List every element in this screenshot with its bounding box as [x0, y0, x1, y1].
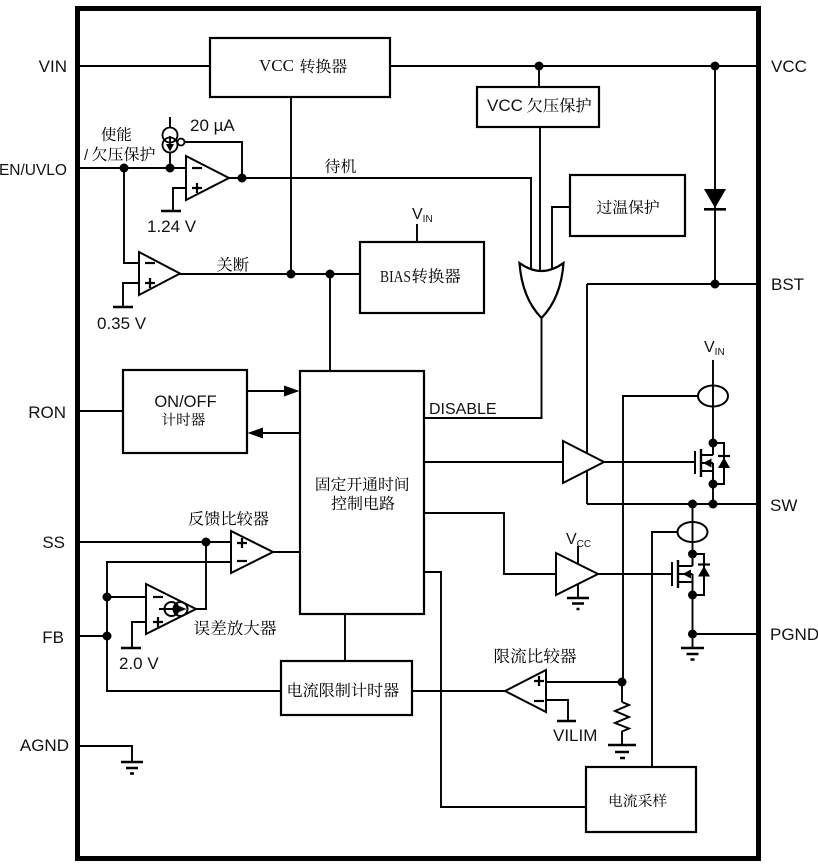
minus sign EN comparator: [192, 167, 202, 169]
plus sign error amplifier: [153, 617, 163, 627]
wire high-side source to SW: [712, 484, 714, 504]
wire standby line to OR gate: [229, 178, 531, 272]
driver low-side gate driver: [556, 553, 598, 595]
op-amp 0.35V UV comparator: [139, 252, 180, 295]
op-amp EN/UVLO comparator: [186, 156, 229, 200]
wire control block to current limit timer: [344, 614, 346, 661]
plus sign feedback comparator: [237, 538, 247, 548]
diode low-side body diode: [698, 565, 710, 577]
ground PGND: [681, 648, 704, 660]
resistor current limit sense: [615, 702, 629, 732]
wire EN/UVLO pin line: [75, 167, 186, 169]
ground AGND: [121, 762, 143, 774]
block ON/OFF timer: [123, 370, 247, 453]
minus sign feedback comparator: [237, 560, 247, 562]
wire VILIM ref to minus input: [546, 700, 568, 721]
op-amp error amplifier: [146, 584, 196, 634]
minus sign error amplifier: [153, 596, 163, 598]
diode high-side body diode: [718, 456, 730, 468]
transistor low-side MOSFET: [672, 554, 704, 595]
wire EN line to UV comparator minus input: [124, 168, 139, 263]
wire resistor to ground: [621, 731, 623, 744]
node junction dot 2: [711, 62, 720, 71]
wire FB net to comparator minus and timer: [107, 562, 281, 691]
svg-text:ON/OFF: ON/OFF: [154, 393, 216, 411]
wire PGND pin line: [693, 633, 757, 635]
node junction dot 5: [238, 174, 247, 183]
wire control block to low-side driver: [424, 513, 556, 574]
block current sample: [586, 767, 696, 832]
wire feedback comparator output to control block: [272, 551, 300, 553]
op-amp current limit comparator: [505, 670, 546, 712]
wire RON pin line: [75, 410, 123, 412]
svg-text:SS: SS: [42, 533, 65, 552]
wire current source tap to comparator output: [184, 142, 242, 178]
text CJK current sample block: [610, 793, 667, 807]
net label enable line2 UVP: [92, 146, 155, 161]
wire VIN pin to VCC converter: [75, 65, 210, 67]
plus sign current limit comparator: [534, 676, 544, 686]
text CJK timer in ON/OFF block: [162, 413, 205, 426]
wire VCC rail from converter to VCC pin: [390, 65, 756, 67]
svg-text:BIAS: BIAS: [380, 267, 411, 286]
text CJK converter in VCC converter block: [300, 59, 347, 74]
wire low-side current sense to sample block: [652, 532, 678, 767]
OR gate (standby/UVP/thermal to DISABLE): [520, 263, 564, 318]
wire high-side driver to gate: [604, 461, 695, 463]
svg-text:RON: RON: [28, 403, 66, 422]
wire 2.0V ref to error amp plus input: [132, 622, 146, 648]
net label standby: [325, 159, 356, 174]
wire SW to low-side sense ellipse: [692, 504, 694, 554]
wire ON/OFF timer to control block: [247, 390, 286, 392]
svg-text:EN/UVLO: EN/UVLO: [0, 162, 67, 179]
node junction dot 12: [618, 678, 627, 687]
svg-text:VCC: VCC: [487, 96, 523, 115]
text CJK control circuit line2: [331, 496, 394, 511]
transconductance symbol at error amplifier output: [159, 602, 188, 616]
arrowhead control block to ON/OFF timer: [248, 428, 264, 439]
wire VCC rail to UVP block: [538, 66, 540, 88]
current sense ellipse low-side: [678, 522, 708, 542]
wire VCC converter bottom to shutdown line: [290, 97, 292, 274]
diode bootstrap VCC to BST: [704, 189, 726, 209]
op-amp feedback comparator: [231, 531, 273, 573]
node junction dot 7: [326, 270, 335, 279]
block VCC undervoltage protection: [477, 87, 599, 127]
wire UVP block to OR gate: [539, 128, 541, 272]
text CJK thermal protection: [597, 200, 659, 215]
block thermal protection: [570, 175, 685, 236]
svg-text:VILIM: VILIM: [553, 726, 597, 745]
block current limit timer: [281, 661, 412, 715]
label error amplifier: [194, 620, 276, 635]
svg-text:1.24 V: 1.24 V: [147, 217, 197, 236]
wire shutdown branch into control block: [329, 274, 331, 371]
wire FB to error amp minus input: [107, 596, 146, 598]
wire Vcc stub into low-side driver: [577, 546, 579, 566]
node junction dot 19: [688, 630, 697, 639]
svg-text:AGND: AGND: [20, 736, 69, 755]
node junction dot 4: [166, 164, 175, 173]
text CJK current limit timer block: [289, 682, 399, 697]
net label enable line1: [101, 127, 131, 141]
wire current source to EN line: [169, 152, 171, 168]
svg-text:VIN: VIN: [39, 57, 67, 76]
text CJK undervoltage protection in UVP block: [527, 98, 591, 113]
node junction dot 3: [120, 164, 129, 173]
node junction dot 1: [535, 62, 544, 71]
node junction dot 18: [688, 591, 697, 600]
wire FB pin line: [75, 635, 107, 637]
wire low-side driver ground stub: [577, 583, 579, 598]
svg-text:SW: SW: [770, 496, 797, 515]
driver high-side gate driver: [563, 441, 604, 483]
node junction dot 17: [688, 550, 697, 559]
svg-text:VCC: VCC: [259, 56, 294, 75]
minus sign UV comparator: [145, 262, 155, 264]
wire low-side source to PGND node: [692, 595, 694, 634]
wire 0.35V ref to plus input: [123, 283, 139, 307]
wire control block to current sample block: [424, 572, 586, 807]
wire PGND node to ground: [692, 634, 694, 648]
reference bar VILIM: [557, 720, 576, 723]
node junction dot 6: [287, 270, 296, 279]
svg-text:VCC: VCC: [771, 57, 807, 76]
wire BST loop down to SW: [586, 284, 588, 504]
label current limit comparator: [495, 648, 576, 663]
wire high-side current sense to comparator: [623, 396, 698, 682]
wire shutdown line to BIAS block: [179, 273, 360, 275]
net label shutdown: [217, 257, 249, 272]
block fixed on-time control circuit: [300, 371, 424, 614]
reference bar 2.0 V: [121, 647, 141, 650]
transistor high-side MOSFET: [695, 443, 724, 484]
plus sign EN comparator: [192, 183, 202, 193]
svg-text:20 µA: 20 µA: [190, 116, 235, 135]
wire AGND pin line: [75, 746, 132, 762]
wire thermal block to OR gate: [552, 207, 570, 272]
wire BST pin line: [587, 283, 756, 285]
node junction dot 15: [688, 500, 697, 509]
wire error amp output to SS node: [195, 542, 206, 609]
text CJK fixed on-time line1: [316, 477, 408, 492]
node junction dot 10: [103, 593, 112, 602]
node junction dot 13: [709, 439, 718, 448]
ground low-side driver: [567, 598, 589, 609]
wire BIAS VIN stub: [416, 224, 418, 242]
wire VIN stub to sense ellipse: [712, 360, 714, 443]
wire control block to high-side driver: [424, 461, 563, 463]
current source 20 uA: [163, 128, 185, 153]
node junction dot 14: [709, 480, 718, 489]
node junction dot 8: [711, 280, 720, 289]
wire control block to ON/OFF timer: [261, 432, 300, 434]
svg-text:2.0 V: 2.0 V: [119, 654, 159, 673]
wire VCC to bootstrap diode to BST: [714, 66, 716, 284]
current sense ellipse high-side: [698, 386, 728, 407]
wire OR gate output DISABLE into control block: [424, 316, 542, 418]
wire 1.24V ref to plus input: [173, 188, 186, 211]
wire low-side driver to gate: [598, 573, 672, 575]
label feedback comparator: [189, 511, 269, 526]
node junction dot 11: [103, 632, 112, 641]
svg-text:PGND: PGND: [770, 625, 818, 644]
wire comparator plus input to sense node: [546, 681, 622, 683]
node junction dot 9: [202, 538, 211, 547]
svg-text:BST: BST: [771, 275, 804, 294]
arrowhead ON/OFF timer to control block: [284, 386, 300, 397]
block VCC converter: [210, 38, 390, 97]
wire sense node to resistor: [621, 682, 623, 702]
node junction dot 16: [709, 500, 718, 509]
wire SS pin line: [75, 541, 231, 543]
svg-text:FB: FB: [42, 628, 64, 647]
svg-text:0.35 V: 0.35 V: [97, 314, 147, 333]
block BIAS converter: [360, 242, 484, 313]
wire SW pin line: [587, 503, 756, 505]
svg-text:DISABLE: DISABLE: [429, 401, 497, 418]
wire current source top stub: [169, 117, 171, 128]
text CJK converter in BIAS block: [412, 268, 460, 283]
reference bar 0.35 V: [113, 306, 133, 309]
wire current limit timer to comparator output: [412, 690, 505, 692]
plus sign UV comparator: [145, 278, 155, 288]
reference bar 1.24 V: [161, 210, 181, 213]
minus sign current limit comparator: [534, 700, 544, 702]
ground below resistor: [608, 745, 636, 758]
